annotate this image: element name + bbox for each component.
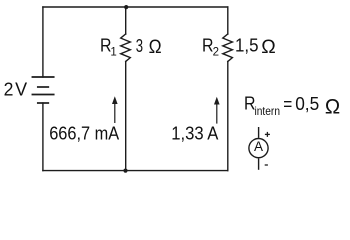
- wire left vertical battery bottom lead: [42, 103, 44, 171]
- wire R2 branch bottom lead: [227, 62, 229, 171]
- current arrow I1 (branch R1): [112, 96, 118, 123]
- resistor R2 zigzag: [223, 34, 233, 62]
- wire R1 branch top lead: [125, 7, 127, 34]
- svg-text:1,5: 1,5: [235, 36, 259, 56]
- svg-text:1: 1: [110, 47, 116, 59]
- svg-text:A: A: [254, 138, 264, 154]
- battery B1 short plate 2: [38, 102, 49, 104]
- ammeter M1 top lead: [258, 127, 260, 138]
- wire left vertical battery top lead: [42, 7, 44, 77]
- wire top from battery to R2 branch: [43, 6, 228, 8]
- battery B1 long plate 2: [32, 94, 53, 96]
- ammeter minus polarity mark: [265, 164, 268, 166]
- svg-text:2: 2: [213, 46, 219, 58]
- svg-text:0,5: 0,5: [295, 94, 319, 114]
- ammeter M1 bottom lead: [258, 158, 260, 170]
- junction node dot bottom (R1 / bottom wire): [123, 169, 127, 173]
- battery B1 short plate 1: [38, 86, 49, 88]
- wire R1 branch bottom lead: [125, 62, 127, 171]
- resistor R1 zigzag: [121, 34, 131, 62]
- svg-text:3: 3: [136, 36, 143, 56]
- ammeter M1 circle body: [249, 139, 268, 158]
- svg-text:Ω: Ω: [325, 96, 340, 119]
- wire bottom from battery to R2 branch: [43, 170, 228, 172]
- svg-text:666,7 mA: 666,7 mA: [49, 123, 119, 143]
- ammeter plus polarity mark: [265, 132, 270, 137]
- svg-text:Ω: Ω: [149, 36, 162, 58]
- svg-text:1,33 A: 1,33 A: [171, 123, 218, 143]
- svg-text:2: 2: [4, 80, 14, 100]
- svg-text:Ω: Ω: [261, 36, 276, 58]
- svg-text:=: =: [283, 94, 292, 114]
- junction node dot top (R1 / top wire): [124, 5, 128, 9]
- current arrow I2 (branch R2): [214, 97, 220, 124]
- wire R2 branch top lead: [227, 7, 229, 34]
- svg-text:intern: intern: [255, 104, 281, 118]
- svg-text:V: V: [15, 80, 27, 100]
- battery B1 long plate 1: [32, 76, 53, 78]
